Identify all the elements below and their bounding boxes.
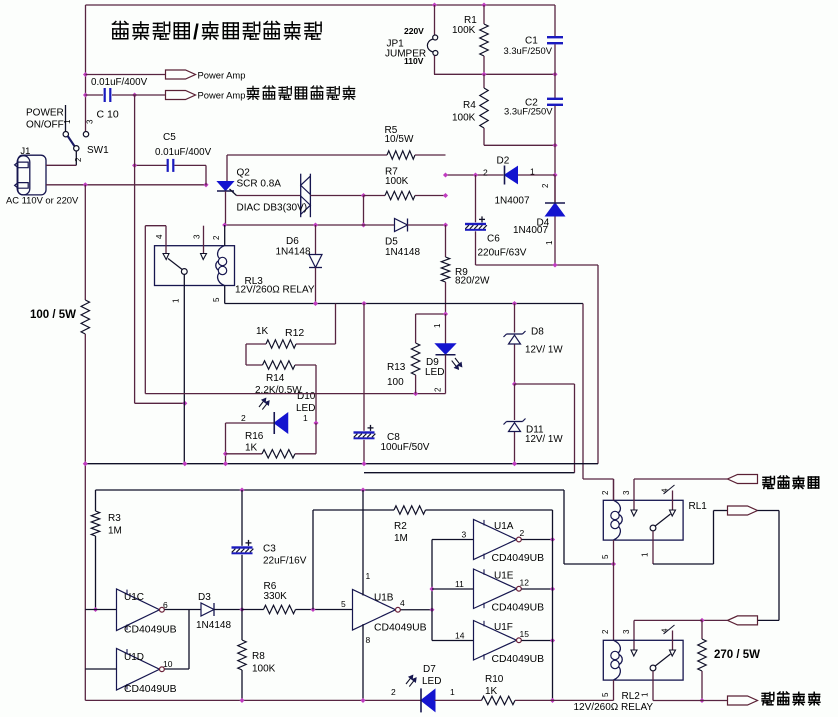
svg-text:110V: 110V [404,56,424,66]
inverter U1C [117,589,160,631]
node junction dots C10 row [83,92,88,97]
capacitor C6 [465,223,486,225]
svg-text:8: 8 [366,635,371,645]
resistor R8 [241,610,243,641]
svg-text:R16: R16 [245,431,264,442]
relay RL1 pin3 wire and 高壓輸入 wire [634,478,728,480]
wire x=363.5 down to D5 row [363,196,365,226]
diode D4 [554,175,556,203]
svg-text:2: 2 [483,168,488,178]
relay RL3 pin5 wire [224,286,226,304]
svg-text:1M: 1M [394,533,408,544]
svg-text:J1: J1 [20,146,30,157]
relay RL1 pin5 to RL2 pin2 [613,540,615,640]
resistor R13 [415,314,417,343]
svg-text:U1A: U1A [494,521,514,532]
diode D5 [395,219,408,232]
wire C10 row y=95 [86,94,104,96]
svg-text:1N4007: 1N4007 [513,225,548,236]
svg-text:D5: D5 [385,237,398,248]
node dot x=225.5 y=453.8 [223,451,228,456]
node dot R1 top [481,2,486,7]
svg-text:1N4148: 1N4148 [196,620,231,631]
svg-text:3: 3 [86,119,95,124]
relay RL3 pin4 contact [163,254,169,260]
svg-text:SW1: SW1 [87,145,109,156]
LED D9 [445,314,447,344]
svg-text:CD4049UB: CD4049UB [374,623,427,634]
svg-text:2: 2 [212,235,221,240]
svg-text:15: 15 [520,629,530,639]
wire to RL2 pin3 [634,619,702,621]
svg-text:AC 110V or 220V: AC 110V or 220V [6,195,79,206]
relay RL2 coil [614,640,623,680]
diode D2 [505,167,518,184]
svg-text:RL1: RL1 [689,501,708,512]
wire to Power Amp arrow 1 [86,74,166,76]
relay RL3 coil [216,246,225,286]
wire D5 row y=225 [225,224,395,226]
node dot x=552.5 y=539.5 [550,537,555,542]
node dots D2 row [443,172,448,177]
relay RL2 box [603,640,683,680]
R13/D9 loop top [416,313,446,315]
node dot x=224.7 y=225 [222,222,227,227]
inverter U1F [474,621,517,661]
node dot x=313 y=609.5 [310,607,315,612]
node dots bottom rail [239,698,244,703]
svg-text:U1B: U1B [374,593,394,604]
node dot x=613.5 y=564 [611,561,616,566]
node dot x=315.5 y=225 [313,222,318,227]
svg-text:DIAC DB3(30V): DIAC DB3(30V) [237,203,308,214]
svg-text:2: 2 [391,687,396,697]
resistor R1 [483,5,485,24]
svg-text:1: 1 [641,692,650,697]
connector J1 [17,155,46,195]
wire U1F output [522,640,553,642]
node dot x=514.5 y=384 [512,381,517,386]
node dot x=445.5 y=195.5 [443,193,448,198]
wire D8/D11 junction to x=574.5 [515,383,575,385]
svg-text:C3: C3 [263,544,276,555]
svg-text:LED: LED [425,367,444,378]
svg-text:CD4049UB: CD4049UB [124,625,177,636]
wire U1A input [432,539,474,541]
svg-text:2: 2 [434,387,443,392]
LED D7 [421,689,435,711]
wire left rail lower x=85.3 [84,185,86,300]
wire U1B pin1 [362,490,364,595]
wire U1C/U1D output tie [188,610,190,670]
svg-text:D7: D7 [423,664,436,675]
node dot x=702 y=620.4 [699,618,704,623]
svg-text:D10: D10 [297,391,316,402]
wire arrow tip to dot [702,619,728,621]
svg-text:1N4148: 1N4148 [385,247,420,258]
svg-text:12: 12 [520,578,530,588]
node dot x=363.5 y=195.5 [361,193,366,198]
resistor R2 [312,510,314,610]
wire C5 corner down to J1 row [205,165,207,185]
node dot x=206 y=184.8 [203,182,208,187]
svg-text:1K: 1K [256,326,269,337]
relay RL2 pin4 stub [672,631,674,650]
svg-text:3: 3 [193,234,202,239]
wire J1 pin1 to SW1 [46,164,76,166]
terminal Power Amp 2 [166,91,196,100]
diode D6 vertical [315,225,317,255]
svg-text:CD4049UB: CD4049UB [492,603,545,614]
relay RL1 pivot and lever [650,525,656,531]
terminal arrow mid right [728,506,758,515]
relay RL1 pin2 [613,479,615,500]
svg-text:U1F: U1F [494,622,513,633]
inverter U1D [117,649,160,691]
wire rail x=552.5 [552,510,554,700]
LED D10 [274,413,288,433]
svg-text:U1E: U1E [494,571,514,582]
relay RL3 pin3 contact [201,254,207,260]
resistor R16 [226,453,263,455]
resistor R7 [385,191,415,199]
node dot x=85.3 y=184.8 [83,182,88,187]
wire U1A output [522,539,553,541]
relay RL2 pin5 [613,680,615,700]
node dot x=415.6 y=393.6 [413,391,418,396]
wire lower box top rail y=490 [96,489,565,491]
svg-text:1: 1 [450,687,455,697]
node dot x=363.5 y=225 [361,222,366,227]
capacitor C10 [104,88,106,102]
jumper JP1 [434,5,436,35]
svg-text:C5: C5 [163,132,176,143]
node dots y=490 [239,487,244,492]
relay RL2 pivot and lever [650,665,656,671]
svg-text:1: 1 [63,119,72,124]
svg-text:1: 1 [530,167,535,177]
svg-text:4: 4 [155,234,164,239]
switch SW1 [65,105,67,131]
inverter U1A [474,520,517,560]
wire U1C output row [165,609,201,611]
svg-text:1K: 1K [485,686,498,697]
svg-text:1: 1 [545,240,554,245]
svg-text:330K: 330K [264,591,288,602]
wire x=145.3 vertical [144,226,146,394]
svg-text:3: 3 [622,490,631,495]
svg-text:R2: R2 [394,521,407,532]
svg-text:1: 1 [641,552,650,557]
svg-text:0.01uF/400V: 0.01uF/400V [91,77,148,88]
svg-text:Q2: Q2 [237,168,251,179]
resistor R5 [387,151,415,159]
relay RL3 pin1 wire down [183,274,185,463]
relay RL3 pin4 wire from x=145.3 [145,225,166,227]
svg-text:SCR 0.8A: SCR 0.8A [237,179,282,190]
svg-text:5: 5 [212,297,221,302]
svg-text:22uF/16V: 22uF/16V [263,556,307,567]
node dot x=184.8 y=403.3 [182,401,187,406]
svg-text:6: 6 [163,600,168,610]
wire U1C input [85,609,116,611]
svg-text:Power Amp: Power Amp [198,69,246,80]
svg-text:220uF/63V: 220uF/63V [478,248,527,259]
wire U1B pin8 [362,625,364,701]
DIAC DB3 [300,174,302,218]
relay RL3 pin3 wire [203,226,205,253]
node dots y=74.3 [481,72,486,77]
node dot x=134.6 y=165.4 [132,163,137,168]
svg-text:U1C: U1C [124,592,144,603]
wire R4 bottom row y=145.3 [484,144,555,146]
wire SCR cathode down [225,191,227,225]
svg-text:5: 5 [601,554,610,559]
svg-text:1N4148: 1N4148 [276,247,311,258]
relay RL3 pivot and lever [181,269,187,275]
svg-text:14: 14 [455,631,465,641]
svg-text:100K: 100K [385,176,409,187]
svg-text:5: 5 [341,599,346,609]
wire vertical x=134.6 from C10 to lower corner [134,95,136,403]
resistor 100/5W [81,300,89,334]
wire rail y=303.5 [225,303,583,305]
svg-text:2: 2 [541,183,550,188]
wire U1D input [85,668,116,670]
relay RL3 box [155,246,235,286]
wire long row y=393.6 [145,393,445,395]
svg-text:/: / [193,21,199,44]
svg-text:2: 2 [601,629,610,634]
node dot x=555 y=265 [552,262,557,267]
relay RL1 pin3 contact [631,510,637,516]
label power transformer primary (Chinese) [247,86,259,99]
wire U1F input [432,640,474,642]
svg-text:ON/OFF: ON/OFF [26,120,64,131]
svg-text:C6: C6 [487,233,500,244]
zener D8 [514,304,516,333]
svg-text:10/5W: 10/5W [385,134,414,145]
svg-text:100K: 100K [452,25,476,36]
svg-text:12V/ 1W: 12V/ 1W [525,345,563,356]
capacitor C3 [241,490,243,546]
resistor R12 [335,304,337,345]
wire RL1 pin1 to output arrow [653,563,714,565]
svg-text:R8: R8 [252,651,265,662]
node dot x=432 y=609.75 [429,607,434,612]
svg-text:11: 11 [455,579,464,589]
node dot JP1 top [432,2,437,7]
resistor R14 [246,364,263,366]
relay RL2 pin1 [652,671,654,701]
svg-text:5: 5 [601,692,610,697]
svg-text:1K: 1K [245,443,258,454]
wire C6 bottom row y=265 [476,264,599,266]
svg-text:R13: R13 [387,362,406,373]
wire R5 row y=155 [227,154,387,156]
terminal Power Amp 1 [166,70,196,79]
capacitor C5 [167,159,169,172]
svg-text:3: 3 [462,530,467,540]
SCR Q2 [218,182,234,191]
wire U1B output [401,609,433,611]
svg-text:POWER: POWER [26,108,64,119]
resistor R9 [445,225,447,257]
svg-text:1: 1 [433,323,442,328]
svg-text:1N4007: 1N4007 [495,196,530,207]
relay RL3 pin2 wire [224,225,226,246]
node dot x=552.5 y=700.4 [550,698,555,703]
wire D10 row y=423 [226,422,275,424]
wire U1E input [432,588,474,590]
svg-text:D6: D6 [286,236,299,247]
svg-text:1M: 1M [108,526,122,537]
wire rail y=472.7 [364,472,575,474]
svg-text:CD4049UB: CD4049UB [124,684,177,695]
wire fanout vertical x=432 [431,540,433,641]
inverter U1B [353,590,396,631]
capacitor C2 [547,98,563,100]
node dot x=552.5 y=640.5 [550,638,555,643]
svg-text:2.2K/0.5W: 2.2K/0.5W [255,385,302,396]
svg-text:1: 1 [366,571,371,581]
relay RL1 coil [614,500,623,540]
resistor R3 [95,490,97,511]
node dot x=316 y=423 [313,420,318,425]
svg-text:12V/260Ω RELAY: 12V/260Ω RELAY [235,285,315,296]
capacitor C1 [547,36,563,38]
node dots rail y=303.5 [313,301,318,306]
node dot x=445.5 y=225 [443,222,448,227]
wire lower box right corner to RL1 pin5 [563,490,565,564]
wire x=225.5 D10 to R16 [225,423,227,464]
svg-text:2: 2 [520,528,525,538]
svg-text:2: 2 [601,490,610,495]
wire top rail y=5 [86,4,556,6]
relay RL1 pin4 contact [670,510,676,516]
wire right rail x=555 with C1 C2 [554,5,556,36]
wire rail y=463.7 [85,463,598,465]
svg-text:2: 2 [241,413,246,423]
svg-text:820/2W: 820/2W [455,276,490,287]
title (Chinese) top [113,22,129,39]
svg-text:100K: 100K [452,112,476,123]
svg-text:3.3uF/250V: 3.3uF/250V [504,105,553,116]
node dots rail y=463.7 [83,461,88,466]
svg-text:10: 10 [163,659,173,669]
wire D2 row y=175 [446,174,504,176]
svg-text:3.3uF/250V: 3.3uF/250V [504,45,553,56]
wire DIAC row y=195.5 [237,195,301,197]
svg-text:3: 3 [622,629,631,634]
svg-text:2: 2 [74,157,83,162]
node dot x=242 y=609.5 [239,607,244,612]
svg-text:4: 4 [400,598,405,608]
relay RL1 pin4 stub [672,491,674,510]
node dot x=432 y=589 [429,586,434,591]
svg-text:CD4049UB: CD4049UB [492,654,545,665]
wire right rail x=598 down [597,265,599,464]
wire x=227 down to SCR [226,155,228,181]
svg-text:LED: LED [296,403,315,414]
resistor 270/5W [701,620,703,639]
wire arrow to right rail x=779 [758,510,780,512]
relay RL1 box [603,500,683,540]
zener D11 [514,384,516,420]
resistor R6 [242,609,264,611]
svg-text:R3: R3 [108,513,121,524]
svg-text:C 10: C 10 [97,109,119,121]
svg-text:220V: 220V [404,26,424,36]
wire C6 vertical x=475.5 [475,175,477,222]
svg-text:12V/ 1W: 12V/ 1W [525,434,563,445]
svg-text:12V/260Ω RELAY: 12V/260Ω RELAY [574,702,654,713]
wire U1E output [522,588,553,590]
svg-text:1: 1 [303,413,308,423]
terminal 高壓輸出 arrow [728,696,758,705]
relay RL1 pin1 [652,531,654,564]
svg-text:R10: R10 [485,674,504,685]
node junction dot top-left y=74.5 [83,72,88,77]
node dot x=702 y=700.5 [699,698,704,703]
wire bottom rail y=700.4 [85,699,420,701]
resistor R10 [482,696,516,704]
svg-text:100: 100 [387,377,404,388]
node dot R3 bottom [93,607,98,612]
switch SW1 pin3 terminal circle [83,132,88,137]
svg-text:Power Amp: Power Amp [198,90,246,101]
wire x=583 corner down to RL1 [582,304,584,480]
label 高壓輸出 (Chinese) [762,693,774,705]
svg-text:D8: D8 [531,327,544,338]
svg-text:R4: R4 [463,100,476,111]
relay RL2 pin4 contact [670,650,676,656]
label 高壓輸入 (Chinese) [763,477,774,489]
capacitor C8 vertical x=364 [363,304,365,431]
node dot y=145.3 [552,143,557,148]
wire J1 pin2 row y=184.8 [46,184,206,186]
svg-text:D3: D3 [198,592,211,603]
svg-text:0.01uF/400V: 0.01uF/400V [155,147,212,158]
wire JP1 bottom row y=74.3 [434,73,555,75]
diode D3 [201,603,214,616]
wire C5 row y=165.4 [135,164,167,166]
svg-text:R12: R12 [285,327,304,339]
svg-text:CD4049UB: CD4049UB [492,553,545,564]
svg-text:R14: R14 [266,373,285,384]
svg-text:1: 1 [172,298,181,303]
svg-text:100 / 5W: 100 / 5W [30,309,76,321]
node dot x=552.5 y=589 [550,586,555,591]
resistor R4 [483,74,485,88]
node dot x=445.5 y=314 [443,311,448,316]
terminal arrow to RL2 [728,616,758,625]
svg-text:RL2: RL2 [622,691,641,702]
svg-text:100K: 100K [252,664,276,675]
inverter U1E [474,569,517,609]
wire RL2 pin1 to 高壓輸出 [653,700,728,702]
svg-text:270 / 5W: 270 / 5W [714,649,760,661]
svg-text:100uF/50V: 100uF/50V [381,442,430,453]
terminal 高壓輸入 arrow [728,475,758,484]
svg-text:D2: D2 [497,156,510,167]
svg-text:LED: LED [422,676,441,687]
wire left rail upper x=85.5 [85,5,87,131]
svg-text:U1D: U1D [124,652,144,663]
